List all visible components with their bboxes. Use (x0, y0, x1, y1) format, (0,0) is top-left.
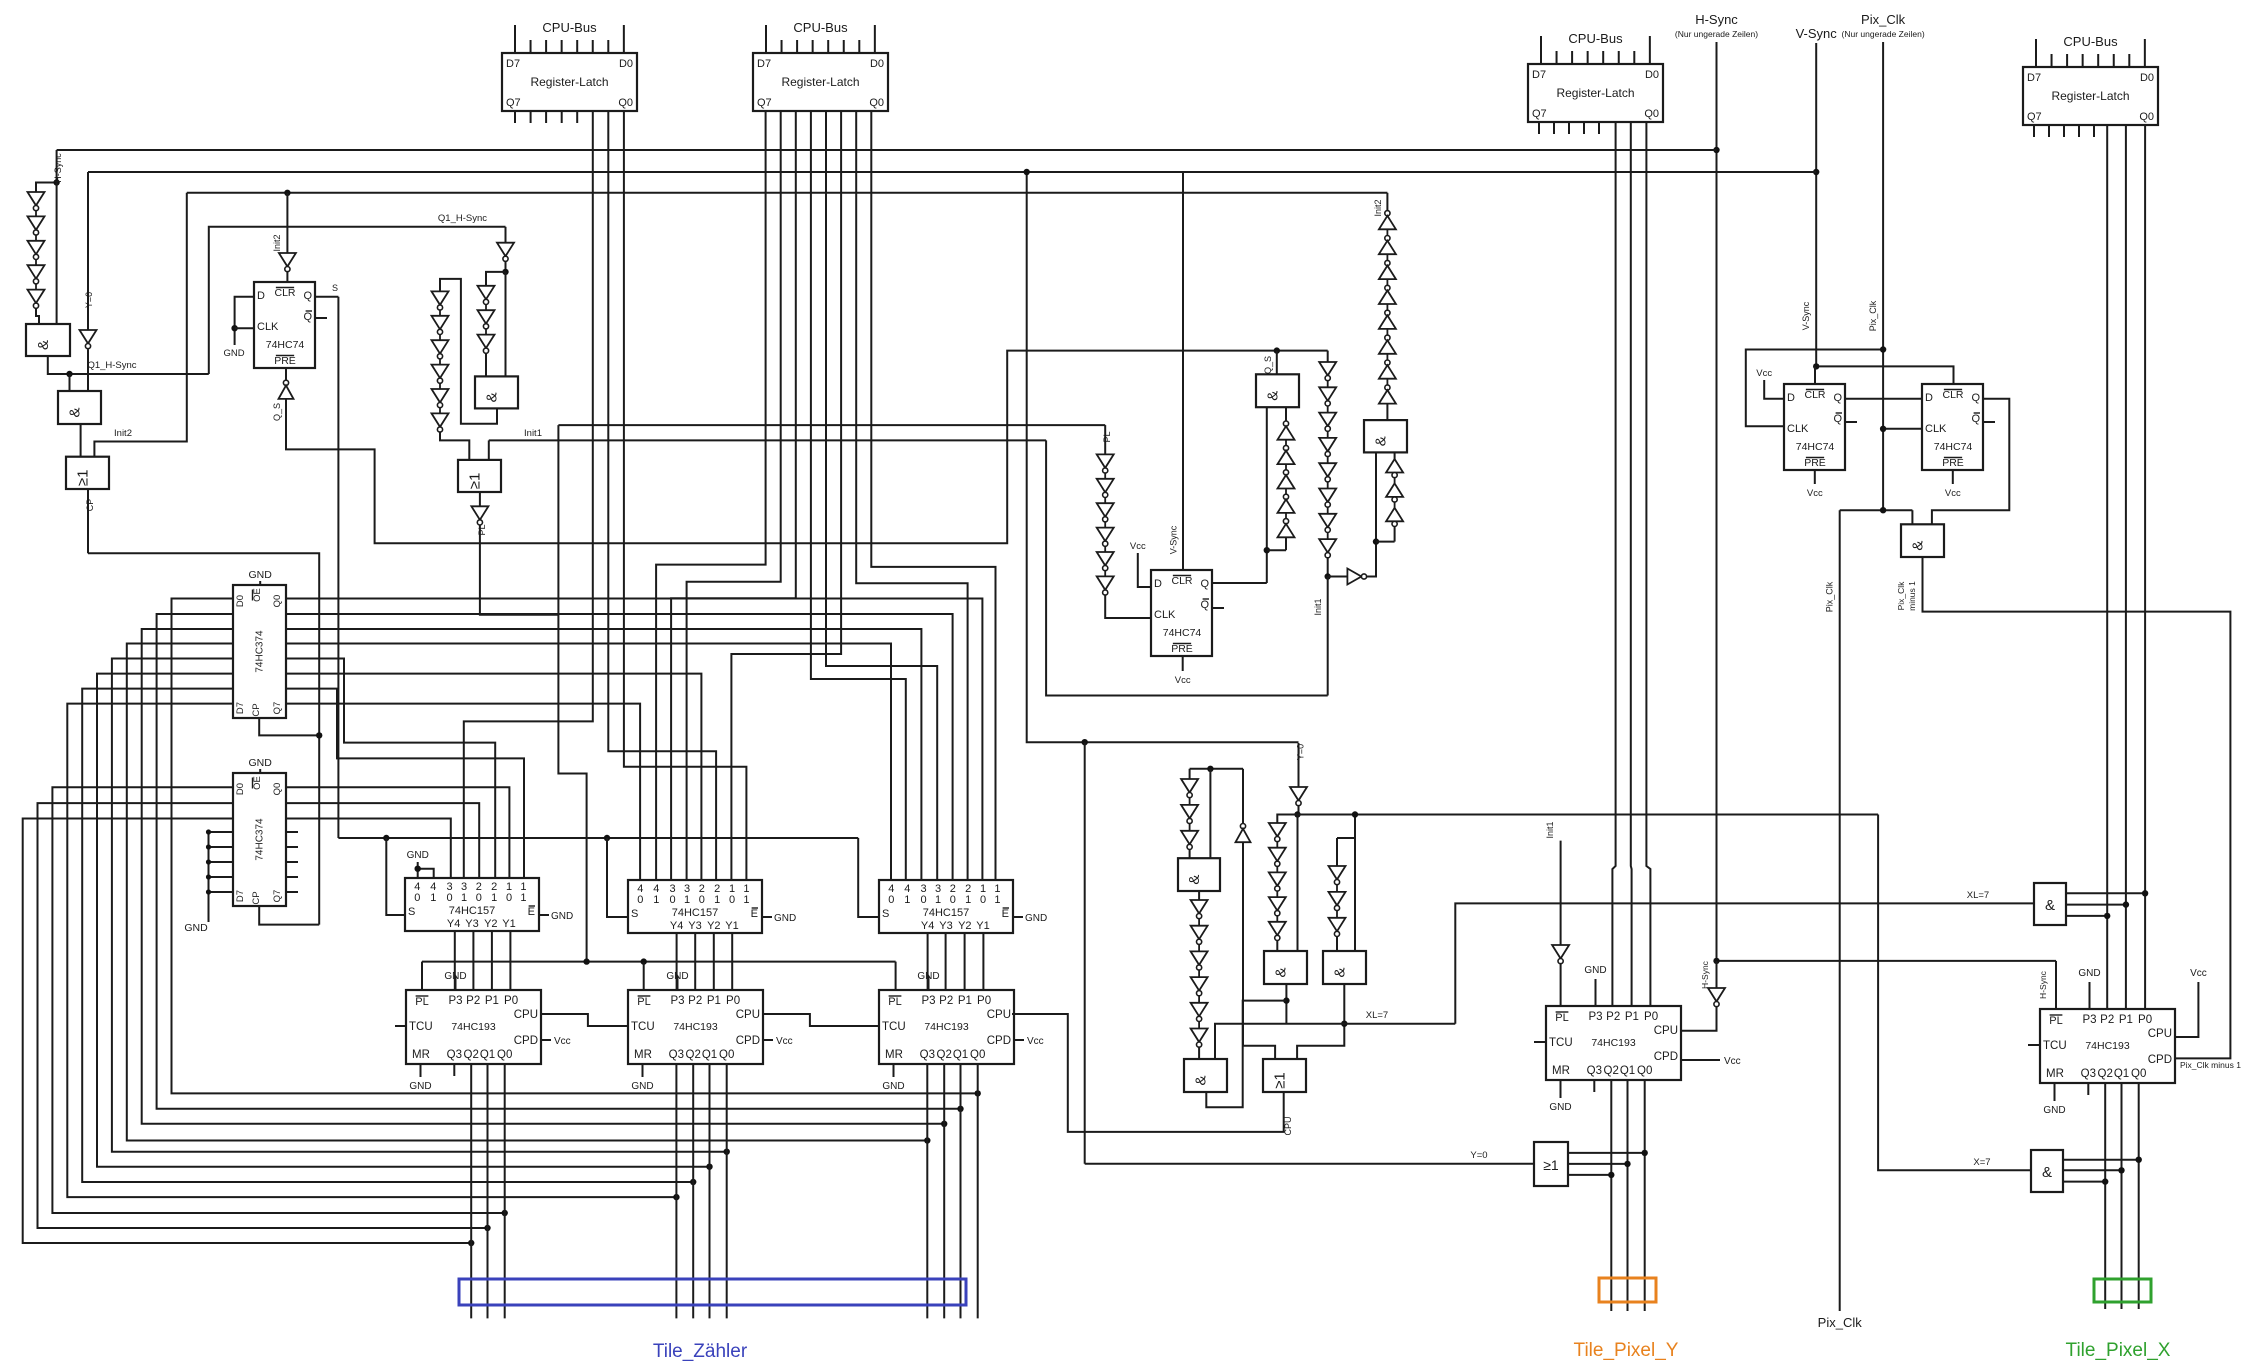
svg-text:1: 1 (965, 894, 971, 906)
svg-text:Q7: Q7 (272, 890, 283, 903)
svg-text:TCU: TCU (631, 1021, 655, 1033)
AND gate G11 (1184, 1059, 1227, 1092)
wire mux3 Y1 to counter3 P0 (982, 933, 984, 990)
svg-text:CPU: CPU (514, 1009, 538, 1021)
mux U4 GND tie (417, 862, 419, 878)
svg-text:Y3: Y3 (939, 920, 952, 932)
wire Pix_Clk to FFr2 CLK (1883, 428, 1922, 430)
wire RL3 Q2 down (1612, 122, 1615, 1006)
register-latch RL4 bottom stubs (2033, 125, 2035, 137)
AND gate G7 (1364, 420, 1407, 452)
wire Q_S into G6 (1276, 351, 1278, 375)
svg-text:Q2: Q2 (2098, 1068, 2113, 1080)
wire PL riser counter2 (643, 962, 645, 990)
svg-text:Q3: Q3 (447, 1049, 462, 1061)
wire PL riser counter3 (895, 962, 897, 990)
FFm CLK from PL chain (1104, 425, 1106, 454)
wire bus D0 nest (374#1 input 0) (172, 599, 978, 1094)
wire bus D5 nest (374#1 input 5) (97, 674, 710, 1167)
svg-text:P0: P0 (1644, 1011, 1658, 1023)
svg-text:E: E (528, 906, 535, 918)
wire G9 output down (1285, 984, 1287, 1024)
svg-text:PL: PL (637, 996, 650, 1008)
mux U6 E stub GND (1013, 916, 1023, 918)
wire G15 input taps (2066, 892, 2145, 894)
svg-text:Vcc: Vcc (1027, 1036, 1044, 1047)
counter U15 CPD Vcc (1681, 1059, 1720, 1061)
svg-text:&: & (1373, 436, 1390, 446)
svg-text:CPD: CPD (736, 1035, 760, 1047)
svg-text:E: E (751, 908, 758, 920)
wire FF1 D feedback to CLK and GND (235, 297, 254, 345)
counter U9 TCU stub (868, 1025, 879, 1027)
svg-text:CPU: CPU (1283, 1116, 1293, 1135)
svg-text:Tile_Zähler: Tile_Zähler (653, 1341, 748, 1362)
flip-flop U14 74HC74 (right2) (1922, 384, 1983, 470)
svg-text:≥1: ≥1 (1543, 1157, 1559, 1173)
wire bus D3 nest (374#1 input 3) (127, 644, 928, 1141)
wire Y=0 drop from V-Sync trunk (87, 172, 89, 330)
svg-text:P0: P0 (2138, 1014, 2152, 1026)
svg-text:Q0: Q0 (869, 97, 884, 109)
svg-text:Vcc: Vcc (554, 1036, 571, 1047)
svg-text:GND: GND (2043, 1105, 2065, 1116)
wire FF1 Q to S net (315, 296, 338, 298)
wire H-Sync drop to counter5 PL (2055, 961, 2057, 1009)
AND gate G2 (58, 391, 101, 424)
svg-text:Pix_Clk: Pix_Clk (1896, 581, 1906, 611)
wire counter3 Q3..Q0 down (926, 1064, 928, 1318)
svg-text:Pix_Clk: Pix_Clk (1868, 300, 1878, 331)
wire RL4 Q0 down (2144, 125, 2146, 1009)
svg-text:0: 0 (637, 894, 643, 906)
inverter IY (80, 330, 97, 344)
svg-text:P1: P1 (1625, 1011, 1639, 1023)
wire bus E1 nest (374#2 input 1) (38, 803, 488, 1228)
wire mux2 Y1 to counter2 P0 (731, 933, 733, 990)
wire IQ to junction (505, 261, 507, 272)
wire Y5 chain link (1277, 815, 1298, 824)
wire Q1_H-Sync trunk (209, 227, 506, 374)
counter U15 74HC193 (pixel Y) (1546, 1006, 1681, 1080)
wire Init2 trunk into chain M8 (1386, 193, 1388, 211)
wire G9 right leg (1297, 815, 1299, 952)
svg-text:P3: P3 (1588, 1011, 1602, 1023)
svg-text:D7: D7 (235, 702, 246, 714)
svg-text:Y2: Y2 (958, 920, 971, 932)
wire H-Sync vertical (1716, 42, 1718, 961)
wire UP1 down to G12 left leg (1243, 842, 1275, 1059)
svg-text:Register-Latch: Register-Latch (530, 75, 608, 89)
U3 unused output stubs (286, 831, 298, 833)
svg-text:D0: D0 (235, 595, 246, 607)
inverter chain L1 (5x) (28, 192, 45, 206)
U3 grounded inputs (208, 832, 210, 922)
svg-text:D0: D0 (2140, 72, 2154, 84)
svg-text:Q3: Q3 (1587, 1065, 1602, 1077)
svg-text:S: S (882, 908, 889, 920)
register-latch RL4 (CPU-Bus) (2023, 67, 2158, 125)
svg-text:Y1: Y1 (502, 918, 515, 930)
register-latch RL3 bottom stubs (1538, 122, 1540, 134)
svg-text:D: D (257, 290, 265, 302)
wire XL=7 riser and upper row (1455, 903, 2034, 1023)
wire 374#1 Q1 to mux3 pin20 (286, 614, 953, 880)
svg-text:D7: D7 (2027, 72, 2041, 84)
svg-text:74HC374: 74HC374 (255, 630, 266, 673)
svg-text:&: & (1910, 541, 1927, 551)
flip-flop U1 74HC74 (254, 282, 315, 368)
svg-text:Q1: Q1 (953, 1049, 968, 1061)
svg-text:74HC74: 74HC74 (1934, 441, 1973, 453)
wire Init1 into G5 (488, 440, 490, 460)
svg-text:P3: P3 (448, 995, 462, 1007)
inverter UP1 (1242, 769, 1244, 824)
svg-text:Vcc: Vcc (1130, 541, 1146, 552)
svg-text:Q1_H-Sync: Q1_H-Sync (438, 213, 487, 224)
svg-text:Y4: Y4 (921, 920, 934, 932)
wire Init1 stub to PL4 inverter (1560, 841, 1562, 945)
svg-text:X=7: X=7 (1973, 1157, 1990, 1168)
wire 374#2 Q2 to mux1 pin30 (286, 819, 451, 879)
mux U5 E stub GND (762, 916, 772, 918)
svg-text:PRE: PRE (1804, 457, 1826, 469)
svg-text:Init2: Init2 (272, 234, 282, 251)
svg-text:Pix_Clk: Pix_Clk (1861, 12, 1906, 27)
wire Y row 743 from V-Sync trunk tap (1027, 172, 1299, 742)
svg-text:1: 1 (491, 892, 497, 904)
svg-text:XL=7: XL=7 (1366, 1010, 1388, 1021)
wire RL4 Q2 down (2106, 125, 2108, 1009)
counter U7 TCU stub (395, 1025, 406, 1027)
svg-text:Vcc: Vcc (2190, 968, 2207, 979)
counter U15 GND P3 (1595, 979, 1597, 1006)
counter U16 74HC193 (pixel X) (2040, 1009, 2175, 1083)
wire bus D4 nest (374#1 input 4) (112, 659, 727, 1152)
AND gate G15 (XL=7) (2034, 883, 2066, 925)
wire G7 chain link (1376, 541, 1395, 543)
svg-text:P3: P3 (921, 995, 935, 1007)
wire PL rail counters (422, 961, 896, 963)
wire X=7 row (1878, 815, 2031, 1171)
svg-text:D7: D7 (235, 890, 246, 902)
svg-text:CP: CP (85, 499, 95, 512)
svg-text:CLR: CLR (1942, 389, 1963, 401)
wire mux1 Y2 to counter1 P1 (491, 931, 493, 990)
inverter IQS below PRE (pointing up) (285, 368, 287, 380)
svg-text:Q7: Q7 (506, 97, 521, 109)
svg-text:MR: MR (2046, 1068, 2064, 1080)
AND gate G4 (475, 376, 518, 408)
svg-text:Q0: Q0 (970, 1049, 985, 1061)
AND gate G6 (Q_S oscillator) (1256, 374, 1299, 407)
wire mux2 Y3 to counter2 P2 (694, 933, 696, 990)
svg-text:GND: GND (249, 569, 273, 581)
wire mux1 Y3 to counter1 P2 (472, 931, 474, 990)
wire 374#2 Q0 to mux1 pin10 (286, 787, 509, 878)
svg-text:(Nur ungerade Zeilen): (Nur ungerade Zeilen) (1842, 29, 1925, 39)
wire PL rail vertical (558, 425, 586, 962)
svg-text:P1: P1 (958, 995, 972, 1007)
wire Y=0 row riser (1084, 742, 1086, 1163)
svg-text:OE: OE (252, 588, 263, 602)
svg-text:Q1_H-Sync: Q1_H-Sync (87, 360, 136, 371)
wire mux3 Y4 to counter3 P3 (927, 933, 929, 990)
orange box Tile_Pixel_Y (1599, 1278, 1656, 1302)
wire RL1 Q2 down to mux1 pin31 (464, 111, 593, 878)
svg-text:Q3: Q3 (920, 1049, 935, 1061)
svg-text:0: 0 (980, 894, 986, 906)
svg-text:Q0: Q0 (2131, 1068, 2146, 1080)
svg-text:D7: D7 (506, 58, 520, 70)
wire RL2 Q5 to mux2 pin30 (671, 111, 796, 880)
wire counter1 Q2 Q1 Q0 down (470, 1064, 472, 1318)
svg-text:GND: GND (882, 1081, 904, 1092)
mux U4 74HC157 (405, 878, 539, 931)
inverter chain B6 (6x) (1191, 900, 1208, 914)
counter U8 MR GND (642, 1064, 644, 1077)
OR gate G12 (1263, 1059, 1306, 1092)
svg-text:TCU: TCU (882, 1021, 906, 1033)
svg-text:74HC193: 74HC193 (451, 1021, 496, 1033)
svg-text:Y2: Y2 (707, 920, 720, 932)
svg-text:CP: CP (251, 891, 262, 904)
inverter chain CR3 (3x) (478, 286, 495, 300)
svg-text:Y=0: Y=0 (1470, 1150, 1487, 1161)
svg-text:D: D (1154, 578, 1162, 590)
svg-text:&: & (67, 407, 84, 417)
svg-text:0: 0 (950, 894, 956, 906)
counter U9 74HC193 (879, 990, 1014, 1064)
counter U16 Q3 stub (2087, 1083, 2089, 1095)
inverter chain M9 (Q_S delay 8x) (1327, 351, 1329, 362)
svg-text:Q0: Q0 (272, 783, 283, 796)
wire H-Sync row to PL of counter5 (1717, 960, 2057, 962)
svg-text:TCU: TCU (2043, 1040, 2067, 1052)
svg-text:PRE: PRE (274, 355, 296, 367)
svg-text:Q: Q (1971, 413, 1980, 425)
svg-text:Q7: Q7 (757, 97, 772, 109)
svg-text:D: D (1787, 392, 1795, 404)
svg-text:P0: P0 (504, 995, 518, 1007)
U3 CP wire (259, 906, 319, 925)
wire 374#1 Q2 to mux3 pin30 (286, 629, 921, 880)
svg-text:Y4: Y4 (670, 920, 683, 932)
OR gate G13 (Y=0) (1534, 1142, 1568, 1186)
svg-text:CLK: CLK (257, 321, 279, 333)
register-latch RL1 bottom stubs (514, 111, 516, 123)
svg-text:GND: GND (1584, 965, 1606, 976)
wire RL3 Q1 down (1630, 122, 1633, 1006)
svg-text:V-Sync: V-Sync (1801, 301, 1811, 330)
wire RL2 Q3 to mux3 pin31 (826, 111, 937, 880)
svg-text:Q: Q (1833, 413, 1842, 425)
wire mux1 Y1 to counter1 P0 (509, 931, 511, 990)
svg-text:Q0: Q0 (618, 97, 633, 109)
wire FF1 Qbar stub (315, 317, 327, 319)
counter U9 MR GND (893, 1064, 895, 1077)
wire counter3 CPU east (to OR G12) (1012, 1014, 1284, 1132)
svg-text:Vcc: Vcc (1807, 488, 1823, 499)
svg-text:GND: GND (551, 911, 573, 922)
wire RL1 Q0 down to mux2 pin11 (624, 111, 747, 880)
svg-text:&: & (2045, 897, 2055, 914)
svg-text:MR: MR (412, 1049, 430, 1061)
svg-text:&: & (1332, 967, 1349, 977)
mux U5 74HC157 (628, 880, 762, 933)
svg-text:Q: Q (1971, 392, 1980, 404)
wire RL4 Q1 down (2125, 125, 2127, 1009)
svg-text:Q0: Q0 (1637, 1065, 1652, 1077)
svg-text:74HC74: 74HC74 (266, 339, 305, 351)
svg-text:V-Sync: V-Sync (1796, 26, 1838, 41)
svg-text:Y1: Y1 (725, 920, 738, 932)
svg-text:H-Sync: H-Sync (1700, 960, 1710, 989)
svg-text:D0: D0 (1645, 69, 1659, 81)
wire S riser mux1 (386, 838, 405, 915)
svg-text:&: & (2042, 1164, 2052, 1181)
svg-text:CPU-Bus: CPU-Bus (2063, 34, 2118, 49)
svg-text:P2: P2 (1606, 1011, 1620, 1023)
wire counter1 CPU to counter2 TCU (541, 1014, 617, 1026)
wire CL6 to G5 (440, 432, 469, 460)
wire Pix_Clk vertical top (1882, 42, 1884, 510)
register-latch RL2 (CPU-Bus) (753, 53, 888, 111)
svg-text:&: & (1265, 391, 1282, 401)
svg-text:P3: P3 (670, 995, 684, 1007)
svg-text:Q0: Q0 (2139, 111, 2154, 123)
wire junction down to G4 (505, 272, 507, 377)
svg-text:PL: PL (888, 996, 901, 1008)
wire PL inverter down to channel (480, 525, 559, 615)
inverter chain CL6 (6x) (432, 291, 449, 305)
svg-text:MR: MR (1552, 1065, 1570, 1077)
counter U16 Q2 Q1 Q0 down (2104, 1083, 2106, 1309)
wire G5 output to PL inverter (479, 492, 481, 506)
svg-text:Q2: Q2 (686, 1049, 701, 1061)
wire G3 output CP (87, 489, 89, 553)
green box Tile_Pixel_X (2094, 1279, 2151, 1302)
FFr2 Qbar stub (1983, 421, 1995, 423)
svg-text:CLK: CLK (1154, 609, 1176, 621)
wire Init2 branch east (94, 193, 186, 457)
wire junction to right chain CR3 (486, 272, 506, 286)
svg-text:Y4: Y4 (447, 918, 460, 930)
wire G6 left leg down to FFm Q (1266, 407, 1268, 583)
svg-text:CLR: CLR (274, 287, 295, 299)
inverter I2a Init2 (279, 253, 296, 267)
svg-text:74HC157: 74HC157 (449, 905, 495, 917)
svg-text:OE: OE (252, 776, 263, 790)
FFm Qbar stub (1212, 607, 1224, 609)
svg-text:PL: PL (1555, 1012, 1568, 1024)
svg-text:S: S (332, 283, 338, 293)
svg-text:Vcc: Vcc (1175, 675, 1191, 686)
wire Ii1 to G7 left leg (1367, 452, 1376, 576)
svg-text:P1: P1 (485, 995, 499, 1007)
svg-text:1: 1 (994, 894, 1000, 906)
svg-text:Y3: Y3 (688, 920, 701, 932)
wire 374#1 Q0 to mux3 pin10 (286, 599, 982, 881)
wire mux3 Y2 to counter3 P1 (964, 933, 966, 990)
svg-text:PL: PL (415, 996, 428, 1008)
counter U16 GND P3 (2089, 982, 2091, 1009)
svg-text:&: & (1193, 1075, 1210, 1085)
svg-text:≥1: ≥1 (75, 470, 92, 487)
svg-text:PRE: PRE (1942, 457, 1964, 469)
svg-text:GND: GND (249, 757, 273, 769)
svg-text:D: D (1925, 392, 1933, 404)
svg-text:Q0: Q0 (497, 1049, 512, 1061)
AND gate G14 (1901, 524, 1944, 557)
inverter IQ Q1_H-Sync (505, 227, 507, 243)
svg-text:Vcc: Vcc (776, 1036, 793, 1047)
wire G14 left leg (1911, 510, 1913, 524)
svg-text:Q1: Q1 (702, 1049, 717, 1061)
svg-text:1: 1 (684, 894, 690, 906)
wire RL2 Q7 to mux2 pin41 (656, 111, 766, 880)
svg-text:Q1: Q1 (1620, 1065, 1635, 1077)
svg-text:CPU-Bus: CPU-Bus (1568, 31, 1623, 46)
svg-text:0: 0 (476, 892, 482, 904)
svg-text:P2: P2 (688, 995, 702, 1007)
svg-text:Q3: Q3 (669, 1049, 684, 1061)
wire V-Sync horizontal trunk (88, 171, 1816, 173)
wire 374#1 Q4 to mux1 pin21 (286, 659, 495, 879)
wire PL rail horizontal to FFm clock chain (558, 424, 1105, 426)
inverter chain F3 (3x up bubble below) (1386, 459, 1403, 473)
svg-text:74HC157: 74HC157 (672, 907, 718, 919)
svg-text:CPU: CPU (1654, 1025, 1678, 1037)
counter U8 CPD Vcc (763, 1039, 773, 1041)
wire Pix_Clk row 510 (1840, 509, 1913, 511)
svg-text:CLK: CLK (1787, 423, 1809, 435)
svg-text:P1: P1 (2119, 1014, 2133, 1026)
wire chain to AND G1 (36, 308, 39, 324)
svg-text:PRE: PRE (1171, 643, 1193, 655)
svg-text:minus 1: minus 1 (1907, 581, 1917, 611)
inverter chain M8 (8x up) (1385, 211, 1390, 216)
svg-text:Q7: Q7 (2027, 111, 2042, 123)
svg-text:P2: P2 (939, 995, 953, 1007)
svg-text:CPU: CPU (2148, 1028, 2172, 1040)
svg-text:0: 0 (921, 894, 927, 906)
wire H-Sync to G1 right input (56, 183, 58, 325)
wire G10 right leg from X7 row (1354, 815, 1356, 952)
counter U8 74HC193 (628, 990, 763, 1064)
wire bus E2 nest (374#2 input 2) (23, 819, 472, 1244)
wire mux2 Y4 to counter2 P3 (676, 933, 678, 990)
latch U2 74HC374 (233, 585, 286, 718)
svg-text:Init1: Init1 (1313, 598, 1323, 615)
svg-text:Init2: Init2 (1373, 199, 1383, 216)
inverter chain F5 (5x up) feeding G6 (1285, 407, 1287, 421)
svg-text:Q7: Q7 (272, 702, 283, 715)
wire 374#1 Q3 to mux3 pin40 (286, 644, 891, 881)
svg-text:PL: PL (477, 524, 487, 535)
wire S net vertical (337, 297, 339, 838)
inverter chain Y5 (5x) (1269, 823, 1286, 837)
wire Pix_Clk long drop (1839, 510, 1841, 1311)
svg-text:≥1: ≥1 (467, 473, 484, 490)
svg-text:1: 1 (935, 894, 941, 906)
svg-text:Init1: Init1 (524, 428, 542, 439)
svg-text:≥1: ≥1 (1272, 1072, 1289, 1089)
wire G13 input taps (1568, 1152, 1645, 1154)
svg-text:Y1: Y1 (976, 920, 989, 932)
svg-text:GND: GND (2078, 968, 2100, 979)
svg-text:0: 0 (699, 894, 705, 906)
